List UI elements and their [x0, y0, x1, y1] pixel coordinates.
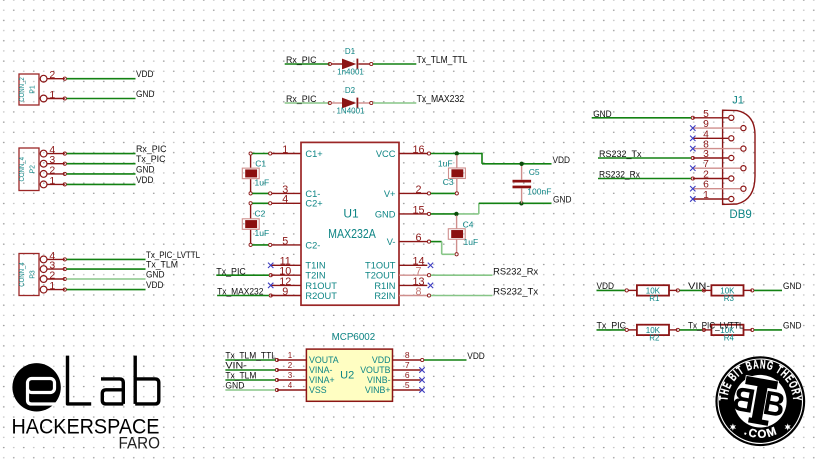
svg-text:C2: C2 — [255, 209, 266, 219]
svg-text:2: 2 — [288, 361, 293, 370]
svg-text:1N4001: 1N4001 — [336, 107, 365, 116]
svg-text:N: N — [760, 359, 766, 373]
svg-text:V+: V+ — [384, 189, 396, 199]
svg-text:1: 1 — [282, 144, 288, 156]
svg-text:VIN-: VIN- — [688, 281, 710, 292]
svg-text:1: 1 — [703, 190, 709, 201]
svg-text:RS232_Rx: RS232_Rx — [599, 170, 640, 181]
svg-text:1uF: 1uF — [255, 228, 270, 238]
svg-text:U1: U1 — [343, 207, 359, 221]
svg-text:1: 1 — [288, 351, 293, 360]
svg-text:GND: GND — [136, 164, 155, 175]
svg-text:MAX232A: MAX232A — [328, 226, 376, 241]
svg-text:1: 1 — [49, 280, 55, 292]
svg-text:VOUTA: VOUTA — [309, 355, 339, 365]
svg-text:FARO: FARO — [119, 434, 161, 453]
svg-text:VINA-: VINA- — [309, 365, 333, 375]
svg-text:VSS: VSS — [309, 385, 327, 395]
svg-text:Tx_PIC_LVTTL: Tx_PIC_LVTTL — [688, 321, 744, 332]
svg-text:DB9: DB9 — [729, 209, 751, 221]
svg-text:1n4001: 1n4001 — [337, 68, 364, 77]
svg-text:VDD: VDD — [467, 351, 485, 362]
svg-text:R2OUT: R2OUT — [305, 291, 337, 301]
svg-text:VINB+: VINB+ — [365, 385, 391, 395]
svg-text:RS232_Tx: RS232_Tx — [493, 287, 538, 298]
svg-text:J1: J1 — [732, 95, 744, 107]
svg-text:Tx_TLM_TTL: Tx_TLM_TTL — [417, 55, 468, 66]
svg-text:MCP6002: MCP6002 — [332, 332, 376, 343]
svg-text:GND: GND — [225, 381, 244, 392]
svg-text:D2: D2 — [345, 86, 356, 95]
svg-text:T1IN: T1IN — [305, 261, 325, 271]
svg-text:T2OUT: T2OUT — [365, 271, 396, 281]
svg-text:C4: C4 — [463, 220, 474, 230]
svg-text:3: 3 — [288, 371, 293, 380]
svg-text:6: 6 — [405, 370, 410, 380]
svg-text:VDD: VDD — [372, 355, 391, 365]
svg-text:C1+: C1+ — [305, 149, 322, 159]
svg-text:100nF: 100nF — [527, 187, 551, 197]
svg-text:VOUTB: VOUTB — [360, 365, 390, 375]
svg-text:R1IN: R1IN — [374, 281, 395, 291]
svg-text:GND: GND — [553, 195, 572, 206]
svg-text:CONN_2: CONN_2 — [17, 77, 26, 102]
svg-text:Tx_MAX232: Tx_MAX232 — [217, 287, 263, 298]
svg-text:C1-: C1- — [305, 189, 320, 199]
svg-text:P1: P1 — [27, 85, 36, 94]
svg-text:RS232_Rx: RS232_Rx — [493, 266, 538, 277]
svg-text:5: 5 — [405, 380, 410, 390]
svg-text:R2: R2 — [649, 333, 660, 342]
svg-text:VINA+: VINA+ — [309, 375, 335, 385]
svg-text:Tx_PIC: Tx_PIC — [216, 266, 246, 277]
svg-text:7: 7 — [405, 360, 410, 370]
svg-text:CONN_4: CONN_4 — [17, 262, 26, 287]
svg-text:P2: P2 — [27, 165, 36, 174]
svg-text:T1OUT: T1OUT — [365, 261, 396, 271]
svg-text:VDD: VDD — [146, 280, 164, 291]
svg-text:VDD: VDD — [553, 155, 571, 166]
svg-text:1uF: 1uF — [438, 158, 453, 168]
svg-text:U2: U2 — [340, 370, 354, 382]
svg-text:1uF: 1uF — [464, 237, 479, 247]
svg-text:8: 8 — [405, 350, 410, 360]
svg-text:4: 4 — [288, 381, 293, 390]
svg-text:R1: R1 — [649, 294, 660, 303]
svg-text:R2IN: R2IN — [374, 291, 395, 301]
svg-text:1uF: 1uF — [255, 177, 270, 187]
svg-text:C5: C5 — [529, 167, 540, 177]
svg-text:1: 1 — [49, 89, 55, 101]
svg-text:GND: GND — [136, 89, 155, 100]
svg-text:GND: GND — [146, 269, 165, 280]
svg-text:CONN_4: CONN_4 — [17, 157, 26, 182]
svg-text:Tx_MAX232: Tx_MAX232 — [417, 94, 465, 105]
svg-text:GND: GND — [375, 209, 396, 219]
svg-text:Rx_PIC: Rx_PIC — [286, 55, 317, 66]
svg-text:GND: GND — [783, 321, 802, 332]
svg-text:VINB-: VINB- — [367, 375, 391, 385]
svg-text:R4: R4 — [724, 333, 735, 342]
svg-text:R1OUT: R1OUT — [305, 281, 337, 291]
svg-text:D1: D1 — [345, 47, 356, 56]
svg-text:V-: V- — [387, 237, 396, 247]
svg-text:VDD: VDD — [136, 69, 154, 80]
svg-text:2: 2 — [49, 69, 55, 81]
svg-text:Rx_PIC: Rx_PIC — [286, 94, 317, 105]
svg-text:C3: C3 — [443, 177, 454, 187]
svg-text:5: 5 — [282, 235, 288, 247]
svg-text:1: 1 — [49, 175, 55, 187]
svg-text:GND: GND — [593, 109, 612, 120]
svg-text:VDD: VDD — [136, 175, 154, 186]
svg-text:4: 4 — [282, 194, 288, 206]
svg-text:VCC: VCC — [376, 149, 396, 159]
svg-text:T2IN: T2IN — [305, 271, 325, 281]
svg-text:C2+: C2+ — [305, 199, 322, 209]
svg-text:P3: P3 — [27, 270, 36, 279]
svg-text:C2-: C2- — [305, 240, 320, 250]
svg-text:RS232_Tx: RS232_Tx — [599, 149, 642, 160]
svg-text:R3: R3 — [724, 294, 735, 303]
svg-text:C1: C1 — [255, 158, 266, 168]
svg-text:GND: GND — [783, 281, 802, 292]
